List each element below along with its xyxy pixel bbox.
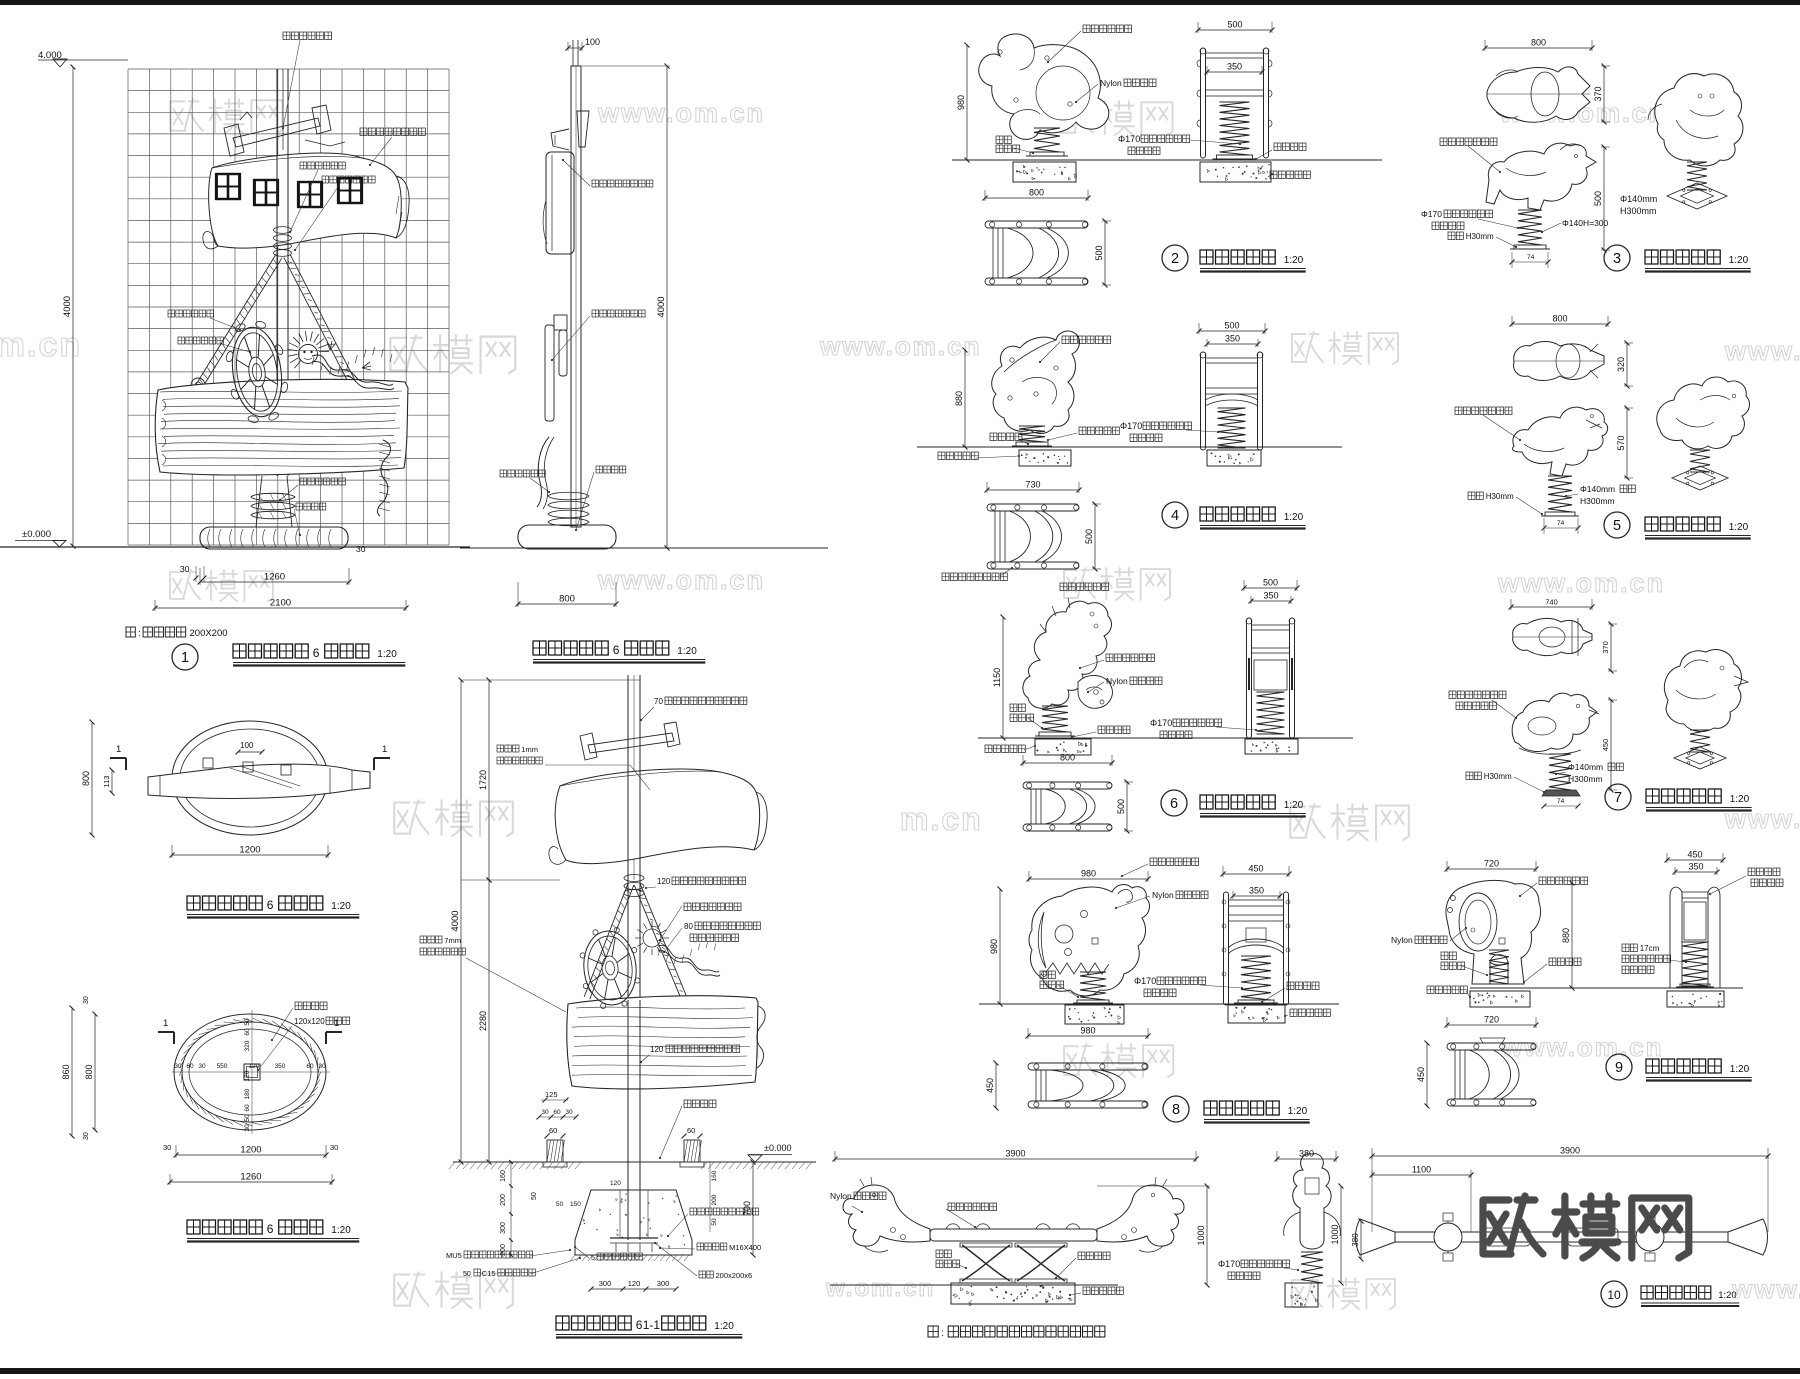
fig5 dim 1720 — [488, 680, 490, 880]
fig1 base log — [200, 527, 348, 549]
svg-text:6: 6 — [313, 646, 320, 660]
fig5 title — [556, 1316, 631, 1330]
svg-text:2100: 2100 — [270, 598, 291, 609]
item7 title — [1605, 784, 1631, 810]
svg-text:800: 800 — [84, 1064, 94, 1079]
item4 label spring clamp — [1079, 427, 1119, 435]
item9 ground line — [1470, 987, 1743, 989]
svg-text:120: 120 — [650, 1045, 664, 1054]
svg-text:1-1: 1-1 — [643, 1318, 661, 1332]
fig5 dim 700 right — [752, 1162, 754, 1255]
item3 dim 800 top — [1485, 47, 1592, 49]
oumowang dark logo — [1483, 1196, 1689, 1258]
fig3 plank across — [148, 764, 370, 798]
svg-text:1:20: 1:20 — [331, 1225, 351, 1236]
svg-text:500: 500 — [1593, 191, 1603, 206]
item3 title — [1604, 245, 1630, 271]
svg-text:380: 380 — [1351, 1233, 1360, 1247]
item5 dim 320 — [1626, 343, 1628, 386]
svg-text:450: 450 — [1687, 850, 1702, 860]
fig5 collar — [624, 875, 644, 882]
svg-text:3900: 3900 — [1005, 1149, 1025, 1159]
item10 dim 380 side — [1277, 1158, 1336, 1160]
item9 label expansion bolt — [1549, 958, 1581, 966]
item5 dim 74 — [1544, 527, 1578, 529]
svg-text:100: 100 — [585, 37, 600, 47]
item6 dim 1150 — [1002, 617, 1004, 738]
fig5 banner scroll — [555, 769, 759, 864]
svg-text:Nylon: Nylon — [1100, 78, 1122, 88]
fig4 outer ellipse — [174, 1014, 326, 1130]
fig1 title text — [233, 644, 308, 658]
svg-text:Φ140mm: Φ140mm — [1620, 194, 1657, 204]
watermark oumowang item4 — [1292, 332, 1398, 364]
item3 side spring — [1518, 210, 1542, 245]
svg-text:6: 6 — [613, 643, 620, 657]
svg-text:800: 800 — [1531, 38, 1546, 48]
svg-text:Φ140H=300: Φ140H=300 — [1562, 218, 1609, 228]
fig2 dim 800 — [518, 603, 616, 605]
item2 dim 980 — [966, 45, 968, 160]
svg-text:Nylon: Nylon — [1106, 676, 1128, 686]
svg-text:30: 30 — [244, 1124, 251, 1132]
item5 dim 570 — [1626, 408, 1628, 478]
svg-text:1150: 1150 — [992, 668, 1002, 687]
svg-text:50: 50 — [463, 1271, 471, 1278]
svg-text:30: 30 — [541, 1109, 549, 1116]
fig1 banner scroll — [209, 153, 402, 248]
item10 note — [928, 1326, 938, 1337]
item9 dim 450 plan — [1426, 1043, 1428, 1106]
item2 ground line — [952, 159, 1382, 161]
fig1 note grid200x200 — [126, 627, 135, 637]
svg-text:50: 50 — [244, 1114, 251, 1122]
svg-text:H30mm: H30mm — [1466, 232, 1494, 241]
svg-text:7: 7 — [1614, 790, 1622, 806]
fig1 grid 200x200 — [128, 69, 449, 545]
svg-text:800: 800 — [1060, 753, 1075, 763]
item6 side concrete — [1035, 739, 1091, 755]
svg-text:1:20: 1:20 — [1284, 800, 1304, 811]
sheet top border bar — [0, 0, 1800, 5]
item3 dim 74 below — [1512, 261, 1548, 263]
item10 dim 1100 plan — [1372, 1174, 1471, 1176]
fig2 label glass figure — [592, 310, 645, 317]
svg-text:4000: 4000 — [62, 296, 73, 317]
svg-text:1: 1 — [163, 1018, 168, 1029]
item2 dim 500 front — [1198, 29, 1272, 31]
item9 label spring clamp — [1441, 952, 1456, 960]
item10 label expansion bolt — [1078, 1252, 1110, 1260]
item4 title — [1162, 502, 1188, 528]
item9 front view — [1670, 887, 1682, 988]
fig1 main pole — [276, 69, 278, 476]
fig4 ring hatch — [180, 1018, 321, 1126]
svg-text:980: 980 — [989, 939, 999, 954]
fig5 dim 2280 — [488, 880, 490, 1162]
fig5 label steel plate 1mm — [497, 745, 519, 752]
fig1 label rope-color left — [168, 310, 213, 317]
item4 label handrail — [942, 573, 1007, 581]
fig1 label timber base — [296, 503, 326, 510]
watermark oumowang item6-top — [1064, 568, 1170, 600]
fig5 pole through plank — [627, 1000, 629, 1090]
item2 label spring clamp — [996, 136, 1011, 144]
svg-text:H30mm: H30mm — [1484, 772, 1512, 781]
svg-text:H300mm: H300mm — [1580, 496, 1614, 506]
fig1 base stem — [256, 476, 262, 527]
item6 label expansion bolt — [1098, 726, 1130, 734]
watermark oumowang item6-right — [1290, 804, 1409, 840]
fig1 label color rope2 — [178, 337, 223, 344]
item8 front concrete — [1228, 1005, 1285, 1023]
fig3 dim 1200 — [172, 854, 328, 856]
item9 label handle — [1748, 868, 1780, 876]
item6 front concrete — [1245, 739, 1298, 754]
svg-text:120: 120 — [610, 1180, 621, 1187]
svg-text:500: 500 — [1263, 578, 1278, 588]
fig4 dim 1260 — [170, 1181, 332, 1183]
item10 side concrete — [1285, 1283, 1318, 1307]
svg-text:1100: 1100 — [1412, 1165, 1431, 1175]
svg-text:450: 450 — [985, 1078, 995, 1093]
svg-text:50: 50 — [244, 1018, 251, 1026]
item9 dim 880 right — [1571, 883, 1573, 988]
fig1 dragon rope body — [312, 355, 393, 385]
fig1 dim 2100 — [155, 607, 406, 609]
fig3 section mark 1 right — [374, 757, 390, 759]
svg-text:30: 30 — [83, 996, 90, 1004]
item4 dim 500 plan — [1094, 504, 1096, 569]
item7 side plate dark — [1542, 790, 1580, 796]
svg-text:350: 350 — [1249, 886, 1264, 896]
fig5 crossbar — [588, 733, 674, 753]
fig2 dim 4000 — [666, 66, 668, 548]
fig2 title — [533, 641, 608, 655]
item9 dim 450 front — [1667, 859, 1723, 861]
fig4 inner ellipse — [182, 1022, 318, 1122]
item2 label polyethylene — [1083, 25, 1132, 33]
item9 front concrete — [1667, 991, 1724, 1007]
item2 turtle side view — [979, 34, 1109, 139]
svg-text:www.om.cn: www.om.cn — [597, 98, 765, 128]
item6 dim 500 front — [1244, 587, 1297, 589]
fig5 wheel — [578, 926, 643, 1011]
item2 front view — [1201, 48, 1206, 158]
item2 title — [1162, 245, 1188, 271]
svg-text:860: 860 — [61, 1064, 71, 1079]
svg-text:370: 370 — [1593, 86, 1603, 101]
fig2 label color rope — [500, 470, 545, 477]
svg-text:60: 60 — [244, 1028, 251, 1036]
item3 dim 370 — [1603, 66, 1605, 122]
fig2 sign panel — [546, 152, 574, 254]
svg-text:720: 720 — [1484, 859, 1499, 869]
item4 label polyethylene — [1062, 336, 1111, 344]
svg-text:w.om.cn: w.om.cn — [825, 1275, 935, 1302]
item5 3d spring — [1690, 450, 1710, 472]
item4 label polyethylene2 — [1060, 583, 1109, 591]
item6 label polyethylene — [1106, 654, 1155, 662]
fig1 ship wheel — [220, 317, 293, 427]
fig5 ground line hatched — [453, 1161, 816, 1163]
svg-text:1: 1 — [116, 744, 121, 755]
svg-text:5: 5 — [591, 1255, 595, 1262]
svg-text:800: 800 — [559, 594, 575, 605]
svg-text:±0.000: ±0.000 — [22, 529, 51, 540]
svg-text:74: 74 — [1527, 254, 1535, 261]
item10 plan view — [1395, 1231, 1728, 1233]
item8 dim 450 front — [1223, 873, 1289, 875]
svg-text:www.: www. — [1724, 804, 1800, 834]
fig5 label pile — [684, 1100, 716, 1108]
fig5 label steel plate 7mm — [420, 936, 442, 943]
item10 concrete base — [951, 1283, 1075, 1304]
svg-text:500: 500 — [1116, 799, 1126, 814]
svg-text:H30mm: H30mm — [1486, 492, 1514, 501]
svg-text:M16X400: M16X400 — [729, 1243, 761, 1252]
item8 label polyethylene — [1150, 858, 1199, 866]
watermark oumowang topview-right — [394, 800, 513, 836]
svg-text:Φ170: Φ170 — [1218, 1259, 1240, 1269]
item4 ground line — [917, 446, 1342, 448]
svg-text:1:20: 1:20 — [331, 901, 351, 912]
svg-text:120: 120 — [244, 1070, 251, 1081]
svg-text:6: 6 — [267, 1222, 274, 1236]
item4 side concrete — [1019, 450, 1071, 466]
svg-text:720: 720 — [1484, 1015, 1499, 1025]
svg-text:Φ170: Φ170 — [1120, 421, 1142, 431]
svg-text:30: 30 — [174, 1063, 182, 1070]
svg-text:320: 320 — [244, 1040, 251, 1051]
item8 title — [1163, 1096, 1189, 1122]
svg-text:880: 880 — [1561, 928, 1571, 943]
item3 label polyethylene molding — [1440, 138, 1497, 146]
watermark oumowang item8 — [1064, 1044, 1173, 1077]
svg-text:350: 350 — [275, 1063, 286, 1070]
svg-text:1:20: 1:20 — [1718, 1290, 1737, 1301]
fig1 ground line — [0, 546, 470, 548]
svg-text:70: 70 — [654, 697, 663, 706]
fig5 label anchor bolts — [690, 1208, 759, 1215]
item3 3d spring — [1687, 162, 1707, 190]
svg-text:6: 6 — [1170, 796, 1178, 812]
svg-text:700: 700 — [742, 1201, 752, 1216]
svg-text:www.om.cn: www.om.cn — [819, 331, 982, 361]
fig4 innermost ellipse — [189, 1029, 311, 1115]
item2 side plate — [1030, 152, 1064, 156]
item3 top view triceratops — [1487, 67, 1590, 122]
svg-text:800: 800 — [1029, 188, 1044, 198]
svg-text:500: 500 — [1084, 529, 1094, 544]
item10 title — [1601, 1281, 1627, 1307]
svg-text:www.: www. — [1731, 1274, 1800, 1304]
item7 dim 450 side — [1610, 700, 1612, 790]
fig2 ground line — [460, 547, 828, 549]
svg-text:60: 60 — [549, 1126, 557, 1135]
item4 dim 350 front — [1207, 343, 1258, 345]
fig5 plank — [567, 996, 758, 1089]
fig1 dim 1260 — [200, 581, 349, 583]
svg-text:1:20: 1:20 — [1730, 1064, 1750, 1075]
watermark oumowang item10-mid — [1292, 1278, 1395, 1309]
svg-text:60: 60 — [687, 1126, 695, 1135]
svg-text:www.om.cn: www.om.cn — [597, 565, 765, 595]
item8 side concrete — [1065, 1005, 1124, 1024]
svg-text:1200: 1200 — [239, 845, 260, 856]
item10 label polyethylene — [948, 1203, 997, 1211]
fig5 hanging rope — [757, 1006, 765, 1068]
svg-text:1:20: 1:20 — [1729, 522, 1749, 533]
item8 whale side view — [1029, 885, 1149, 996]
svg-text:1mm: 1mm — [521, 745, 538, 754]
item8 front view — [1224, 892, 1229, 1005]
item4 plan view — [987, 504, 1079, 511]
svg-text:30: 30 — [198, 1063, 206, 1070]
item7 label polyethylene duck — [1449, 691, 1506, 699]
fig5 label embedded bolt M16X400 — [697, 1243, 727, 1250]
svg-text:4000: 4000 — [450, 910, 461, 931]
svg-text:Φ170: Φ170 — [1118, 134, 1140, 144]
item8 dim 980 left — [999, 889, 1001, 1004]
watermark oumowang item2 — [1060, 101, 1172, 135]
item4 label expansion bolt — [990, 433, 1022, 441]
svg-text:Nylon: Nylon — [1152, 890, 1174, 900]
item3 label base H30 — [1448, 232, 1463, 240]
item2 plan view — [985, 221, 1088, 228]
fig1 leg anchor left — [191, 378, 205, 392]
item9 dim 720 plan — [1447, 1024, 1536, 1026]
item2 front concrete — [1200, 162, 1271, 182]
item5 3d diamond base — [1672, 466, 1728, 490]
fig3 dim 800 — [91, 722, 93, 835]
item7 side view duck — [1512, 693, 1597, 751]
item6 ground line — [978, 737, 1353, 739]
svg-text:740: 740 — [1545, 598, 1558, 607]
item9 arch + spring — [1490, 955, 1508, 963]
item2 side spring — [1034, 128, 1060, 152]
svg-text:4000: 4000 — [656, 296, 667, 317]
fig3 section mark 1 left — [110, 757, 126, 759]
svg-text:1:20: 1:20 — [377, 649, 397, 660]
item3 dim 500 side — [1603, 147, 1605, 250]
item4 dim 880 — [964, 350, 966, 447]
svg-text:500: 500 — [1094, 245, 1104, 260]
svg-text:300: 300 — [500, 1222, 507, 1234]
item3 3d diamond base — [1667, 183, 1727, 209]
fig3 outer ellipse — [172, 721, 328, 835]
item10 beam — [930, 1229, 1097, 1241]
svg-text:113: 113 — [102, 776, 111, 788]
svg-text:800: 800 — [1552, 314, 1567, 324]
item5 3d trex — [1657, 377, 1750, 449]
fig3 title — [187, 896, 262, 910]
item7 3d spring — [1690, 730, 1710, 752]
svg-text:120: 120 — [657, 877, 671, 886]
svg-text:www.: www. — [1724, 336, 1800, 366]
fig1 label steel tube paint — [322, 176, 375, 183]
svg-text:www.om.cn: www.om.cn — [1497, 568, 1665, 598]
item4 dim 730 plan — [987, 489, 1079, 491]
svg-text:1: 1 — [334, 1018, 339, 1029]
item5 side view trex — [1512, 407, 1607, 476]
item7 top dim right — [1610, 624, 1612, 671]
fig2 dim 100 top — [568, 47, 582, 49]
item10 right sea lion — [1097, 1185, 1184, 1246]
svg-text::: : — [941, 1328, 944, 1339]
item2 dim 800 plan — [985, 197, 1088, 199]
fig5 label glass figure — [684, 903, 741, 911]
fig1 left dim 4000 — [72, 67, 74, 546]
fig5 pole through banner — [627, 771, 629, 875]
svg-text:3900: 3900 — [1560, 1146, 1580, 1156]
fig1 tripod right leg — [284, 258, 349, 384]
item2 label concrete base — [1270, 171, 1310, 179]
svg-text:880: 880 — [954, 391, 964, 406]
fig1 pole through banner — [276, 152, 278, 255]
svg-text:1260: 1260 — [240, 1172, 261, 1183]
svg-text:7mm: 7mm — [444, 936, 461, 945]
watermark oumowang mid-left — [390, 335, 515, 373]
item9 elephant ear — [1459, 893, 1497, 951]
fig5 bottom dims 300 120 300 — [591, 1288, 676, 1290]
svg-text:Φ170: Φ170 — [1421, 209, 1442, 219]
svg-text:Φ140mm: Φ140mm — [1580, 484, 1615, 494]
fig4 center steel tube — [244, 1064, 260, 1080]
svg-text:160: 160 — [500, 1170, 507, 1182]
svg-text:50: 50 — [711, 1218, 718, 1226]
svg-text:1000: 1000 — [1330, 1224, 1340, 1244]
svg-text:200: 200 — [500, 1194, 507, 1206]
item7 label base H30 — [1466, 772, 1481, 780]
svg-text:60: 60 — [306, 1063, 314, 1070]
item6 dino seat — [1078, 675, 1112, 708]
svg-text:380: 380 — [1299, 1149, 1314, 1159]
svg-text:74: 74 — [1557, 798, 1565, 805]
item4 dim 500 front — [1199, 330, 1265, 332]
svg-text:1:20: 1:20 — [1284, 255, 1304, 266]
svg-text:Φ140mm: Φ140mm — [1568, 762, 1603, 772]
fig1 title circle 1 — [172, 644, 198, 670]
item5 side plate — [1545, 512, 1575, 516]
svg-text:980: 980 — [956, 95, 966, 110]
svg-text:50: 50 — [531, 1192, 538, 1200]
item10 left sea lion — [843, 1185, 930, 1246]
svg-text:180: 180 — [244, 1088, 251, 1099]
item8 dim 980 top — [1029, 878, 1148, 880]
watermark oumowang planview-right — [394, 1272, 513, 1308]
fig5 tripod legs — [584, 883, 628, 997]
svg-text:320: 320 — [1616, 357, 1626, 372]
item6 side spring — [1042, 706, 1068, 732]
fig5 pole — [627, 675, 629, 1240]
svg-text:450: 450 — [1248, 864, 1263, 874]
fig1 label color rope stem — [300, 478, 345, 485]
fig2 top rod — [572, 40, 574, 66]
item7 dim 74 — [1544, 805, 1578, 807]
item4 front concrete — [1207, 450, 1261, 466]
svg-text:30: 30 — [330, 1143, 338, 1152]
svg-text:9: 9 — [1615, 1060, 1623, 1076]
item9 title — [1606, 1054, 1632, 1080]
item10 label concrete base — [1083, 1287, 1123, 1295]
svg-text:±0.000: ±0.000 — [764, 1143, 791, 1153]
item10 dim 3900 front — [835, 1158, 1196, 1160]
item9 label 17cm spring — [1622, 944, 1637, 952]
fig1 plank sign board — [155, 379, 408, 475]
svg-text:2280: 2280 — [478, 1011, 488, 1031]
item5 dim 800 top — [1512, 323, 1608, 325]
